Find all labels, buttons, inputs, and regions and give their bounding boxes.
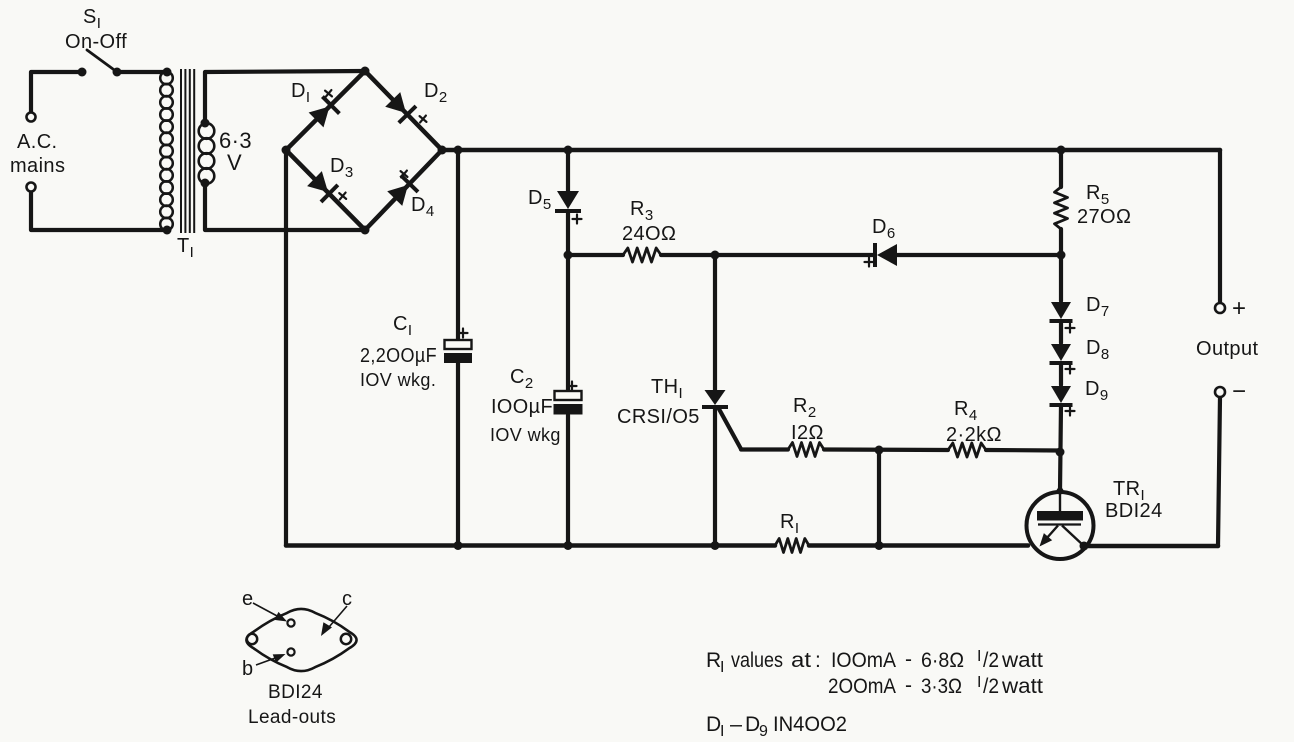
svg-text:IOOmA: IOOmA (831, 649, 896, 672)
svg-text::: : (815, 649, 821, 672)
svg-text:IOV wkg.: IOV wkg. (360, 370, 436, 390)
svg-text:b: b (242, 658, 254, 680)
svg-text:-: - (905, 674, 912, 697)
svg-text:e: e (242, 588, 254, 610)
svg-text:R: R (706, 649, 721, 672)
svg-text:c: c (342, 588, 352, 610)
svg-text:watt: watt (1001, 675, 1043, 698)
svg-text:CRSI/O5: CRSI/O5 (617, 406, 700, 428)
svg-text:2·2kΩ: 2·2kΩ (946, 424, 1002, 446)
svg-text:–: – (730, 713, 742, 736)
svg-text:IN4OO2: IN4OO2 (773, 713, 847, 736)
svg-text:/2: /2 (983, 649, 999, 672)
svg-text:watt: watt (1001, 649, 1043, 672)
svg-text:3·3Ω: 3·3Ω (921, 675, 962, 698)
svg-text:A.C.: A.C. (17, 131, 58, 153)
svg-text:On-Off: On-Off (65, 31, 127, 53)
svg-text:I: I (977, 674, 981, 691)
svg-text:V: V (227, 150, 242, 175)
svg-text:−: − (1232, 378, 1246, 405)
svg-text:9: 9 (759, 723, 768, 740)
svg-text:27OΩ: 27OΩ (1077, 206, 1131, 228)
svg-text:at: at (791, 649, 811, 672)
svg-text:I: I (720, 723, 724, 740)
svg-text:mains: mains (10, 155, 65, 177)
svg-text:-: - (905, 648, 912, 671)
svg-text:I: I (720, 659, 724, 676)
svg-text:BDI24: BDI24 (1105, 500, 1163, 522)
svg-text:Output: Output (1196, 338, 1258, 360)
svg-text:BDI24: BDI24 (268, 682, 323, 703)
svg-text:IOV wkg: IOV wkg (490, 425, 561, 445)
svg-text:Lead-outs: Lead-outs (248, 707, 336, 728)
svg-text:2,2OOµF: 2,2OOµF (360, 345, 437, 367)
svg-text:IOOµF: IOOµF (491, 396, 553, 418)
svg-text:/2: /2 (983, 675, 999, 698)
svg-text:I2Ω: I2Ω (791, 422, 824, 444)
svg-text:+: + (1232, 295, 1246, 322)
svg-text:D: D (706, 713, 721, 736)
svg-text:6·8Ω: 6·8Ω (921, 649, 964, 672)
svg-text:values: values (731, 649, 783, 672)
svg-text:D: D (745, 713, 760, 736)
svg-text:2OOmA: 2OOmA (828, 675, 896, 698)
svg-text:I: I (977, 648, 981, 665)
svg-text:24OΩ: 24OΩ (622, 223, 676, 245)
